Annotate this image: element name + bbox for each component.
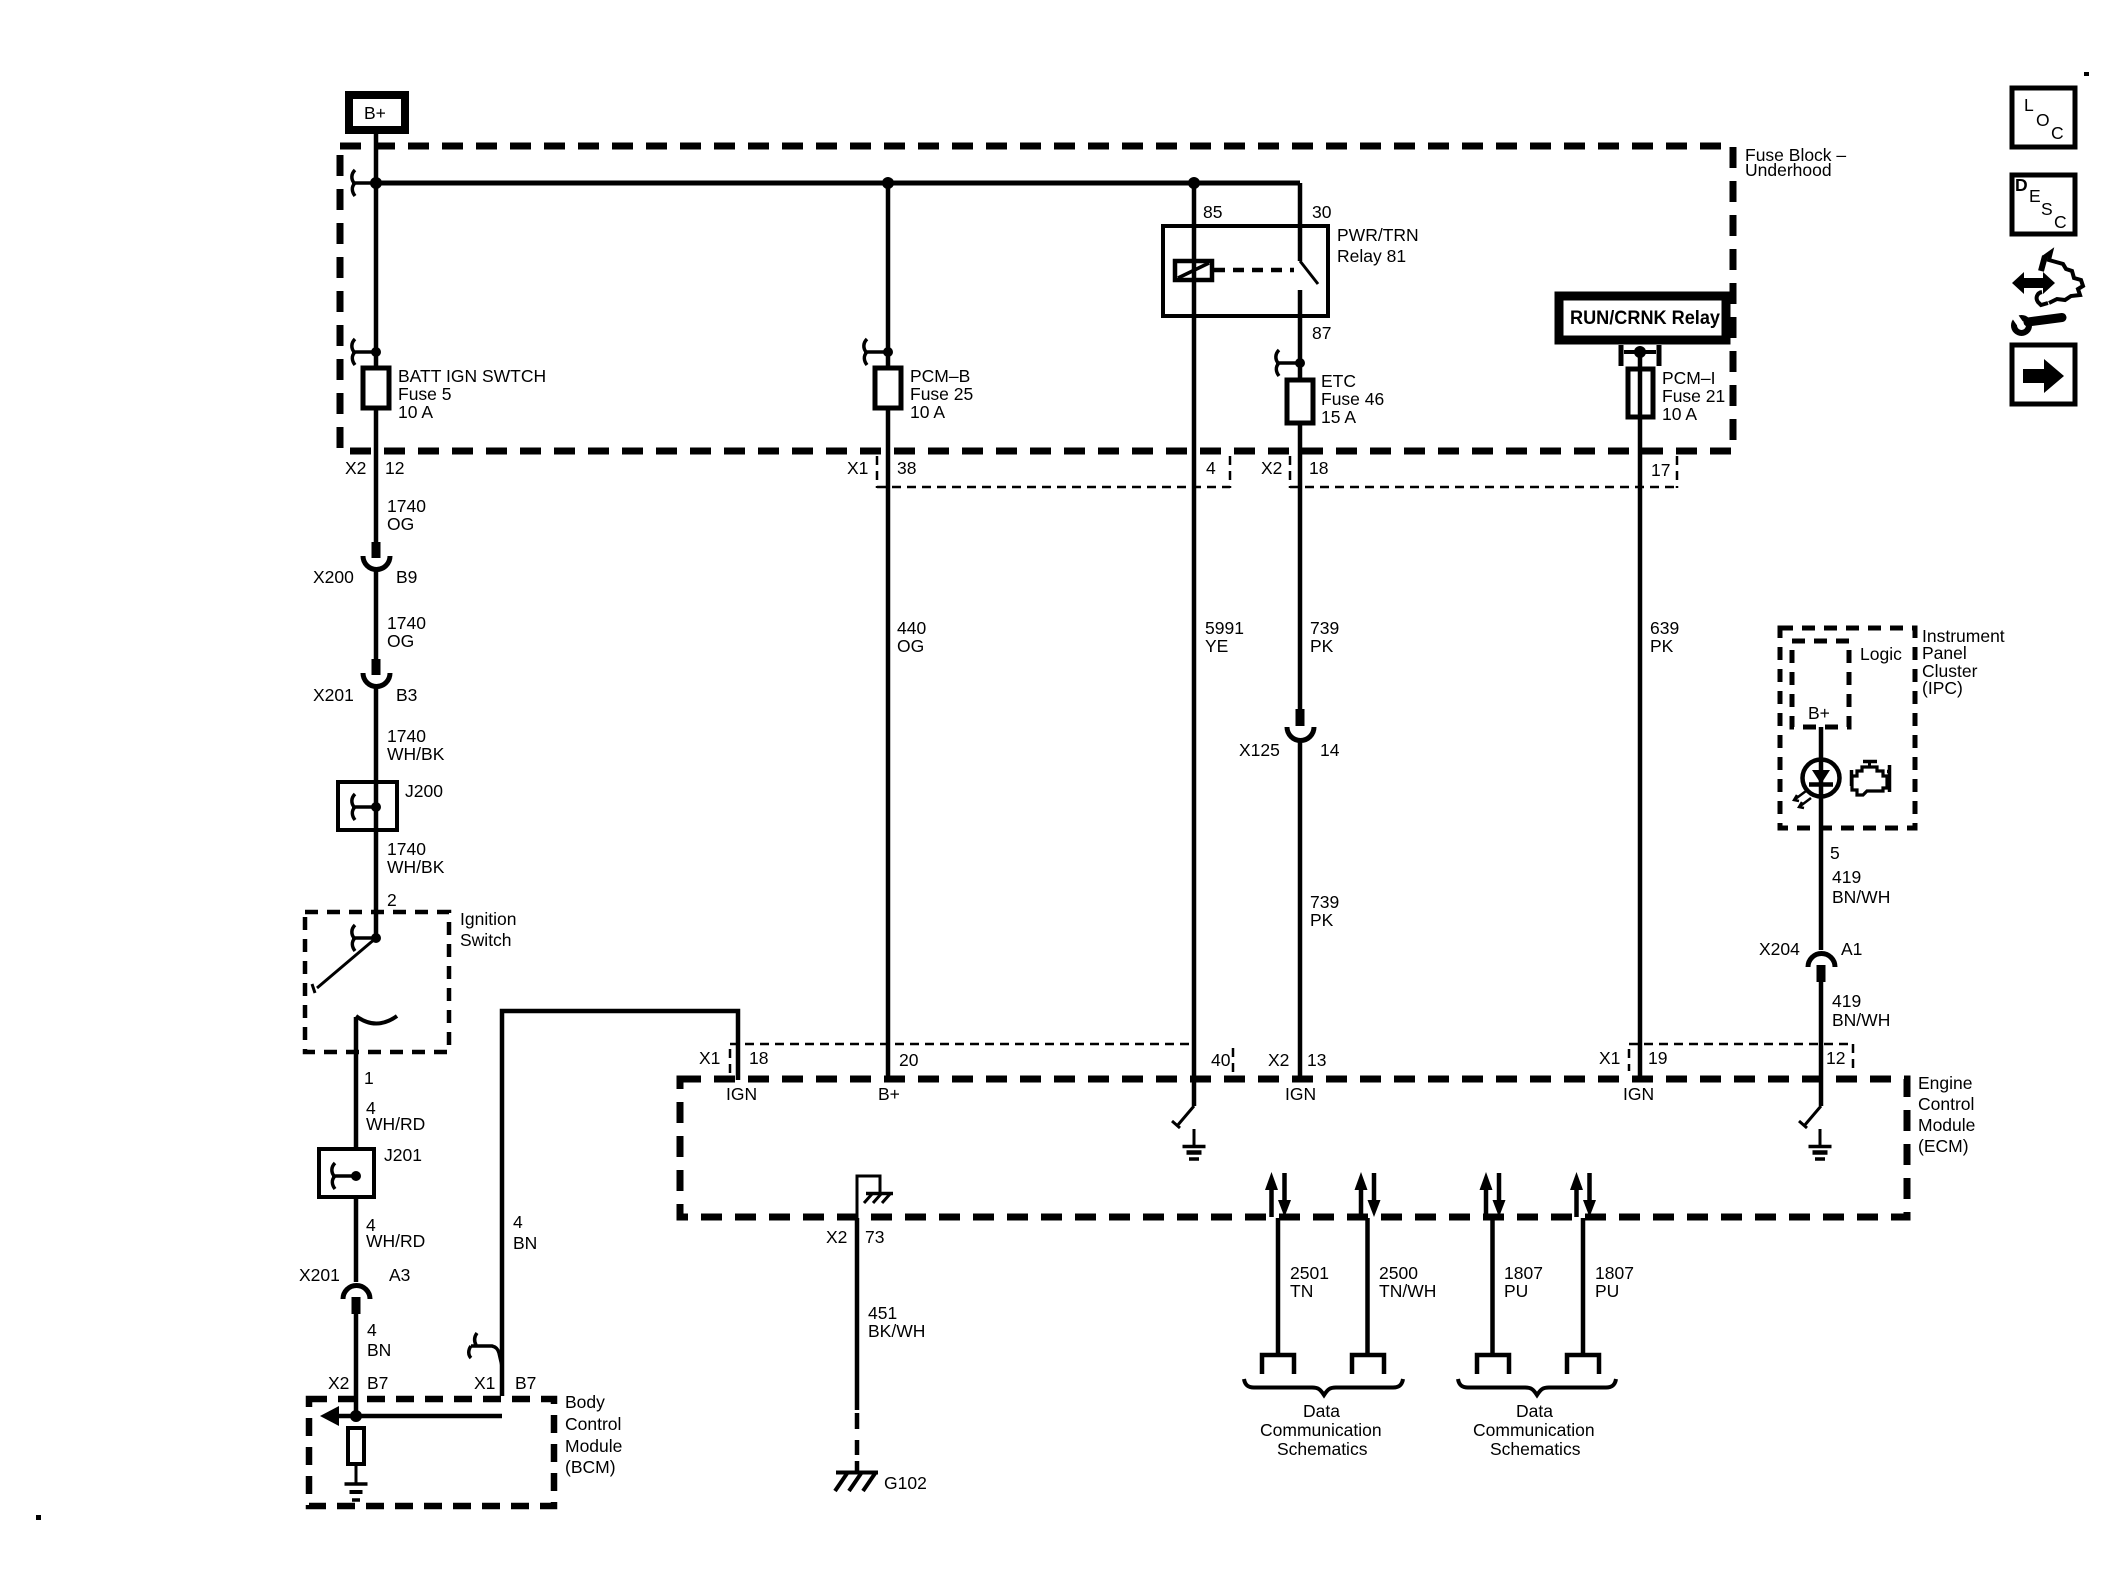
connector X201 B3 xyxy=(313,659,417,705)
fuse F5 BATT IGN SWTCH 10A xyxy=(363,366,546,422)
svg-text:20: 20 xyxy=(899,1050,919,1070)
svg-text:18: 18 xyxy=(749,1048,768,1068)
IPC box xyxy=(1780,626,2005,828)
svg-text:Communication: Communication xyxy=(1260,1420,1382,1440)
svg-text:18: 18 xyxy=(1309,458,1328,478)
svg-text:10 A: 10 A xyxy=(398,402,433,422)
wire fuse46 to X2-18 xyxy=(1298,423,1303,460)
pin X1 18 IGN xyxy=(699,1048,768,1104)
svg-text:Ignition: Ignition xyxy=(460,909,516,929)
svg-text:IGN: IGN xyxy=(1285,1084,1316,1104)
svg-text:Communication: Communication xyxy=(1473,1420,1595,1440)
relay coil xyxy=(1175,183,1212,316)
svg-text:PWR/TRN: PWR/TRN xyxy=(1337,225,1419,245)
icon DESC xyxy=(2012,175,2075,234)
bus wire B+ feed xyxy=(376,181,1300,186)
pin 40 xyxy=(1211,1048,1233,1073)
svg-text:419: 419 xyxy=(1832,867,1861,887)
wire 419 BN/WH to ECM pin12 xyxy=(1821,982,1890,1106)
label data comm 1 xyxy=(1260,1401,1382,1459)
wire PCM-B feed xyxy=(886,183,891,368)
svg-text:X201: X201 xyxy=(299,1265,340,1285)
splice J201 xyxy=(319,1145,422,1197)
svg-text:WH/RD: WH/RD xyxy=(366,1114,425,1134)
data arrows serial bus 1 xyxy=(1265,1172,1291,1217)
svg-text:1740: 1740 xyxy=(387,839,426,859)
svg-text:Fuse 46: Fuse 46 xyxy=(1321,389,1384,409)
wire bus to fuse5 xyxy=(374,183,379,368)
pin X2 13 IGN xyxy=(1268,1050,1326,1104)
power symbol B+ xyxy=(349,95,405,130)
clip fuse25 xyxy=(864,339,893,365)
svg-text:Control: Control xyxy=(1918,1094,1974,1114)
pin X1 19 IGN xyxy=(1599,1048,1667,1104)
svg-text:X201: X201 xyxy=(313,685,354,705)
svg-text:WH/BK: WH/BK xyxy=(387,857,445,877)
wire 4 BN to BCM xyxy=(356,1314,391,1416)
svg-text:73: 73 xyxy=(865,1227,884,1247)
connector X201 A3 xyxy=(299,1265,410,1314)
connector dashed line ECM X1 xyxy=(730,1043,1194,1046)
svg-text:1740: 1740 xyxy=(387,613,426,633)
clip BCM X1-B7 xyxy=(469,1333,502,1366)
svg-text:12: 12 xyxy=(385,458,404,478)
svg-text:1807: 1807 xyxy=(1595,1263,1634,1283)
relay actuator dashed link xyxy=(1214,268,1294,273)
svg-text:X125: X125 xyxy=(1239,740,1280,760)
svg-text:X1: X1 xyxy=(847,458,868,478)
svg-text:OG: OG xyxy=(387,631,414,651)
svg-text:Data: Data xyxy=(1303,1401,1340,1421)
ECM switch pin12 xyxy=(1799,1106,1821,1128)
svg-text:X1: X1 xyxy=(1599,1048,1620,1068)
wire 4 WH/RD lower xyxy=(356,1197,425,1282)
svg-text:C: C xyxy=(2051,123,2064,143)
svg-text:E: E xyxy=(2029,186,2041,206)
terminator serial 3 xyxy=(1477,1355,1509,1374)
fuse block - underhood box xyxy=(340,145,1846,451)
svg-text:Logic: Logic xyxy=(1860,644,1902,664)
wire 639 PK PCM-I to ECM pin19 xyxy=(1640,460,1679,1080)
ignition switch blade xyxy=(312,938,376,993)
pin X1 38 xyxy=(847,456,916,488)
clip ignition switch xyxy=(352,925,381,951)
svg-text:Data: Data xyxy=(1516,1401,1553,1421)
fuse F46 ETC 15A xyxy=(1287,371,1384,427)
svg-text:739: 739 xyxy=(1310,618,1339,638)
svg-text:X2: X2 xyxy=(328,1373,349,1393)
svg-text:J200: J200 xyxy=(405,781,443,801)
svg-text:451: 451 xyxy=(868,1303,897,1323)
svg-text:PU: PU xyxy=(1504,1281,1528,1301)
svg-text:1: 1 xyxy=(364,1068,374,1088)
svg-text:2501: 2501 xyxy=(1290,1263,1329,1283)
svg-text:BK/WH: BK/WH xyxy=(868,1321,925,1341)
svg-text:(ECM): (ECM) xyxy=(1918,1136,1969,1156)
chassis ground ECM X2-73 xyxy=(857,1176,893,1218)
svg-text:1740: 1740 xyxy=(387,496,426,516)
svg-text:15 A: 15 A xyxy=(1321,407,1356,427)
svg-text:IGN: IGN xyxy=(1623,1084,1654,1104)
svg-text:L: L xyxy=(2024,95,2034,115)
data arrows serial bus 4 xyxy=(1570,1172,1596,1217)
pin X1 B7 xyxy=(474,1373,536,1393)
data arrows serial bus 2 xyxy=(1355,1172,1381,1217)
svg-text:10 A: 10 A xyxy=(1662,404,1697,424)
svg-text:(IPC): (IPC) xyxy=(1922,678,1963,698)
svg-text:RUN/CRNK Relay: RUN/CRNK Relay xyxy=(1570,308,1720,329)
svg-text:X1: X1 xyxy=(699,1048,720,1068)
wire fuse5 to connector X2-12 xyxy=(374,408,379,460)
svg-text:IGN: IGN xyxy=(726,1084,757,1104)
connector dashed line X1 xyxy=(877,456,1230,488)
svg-text:Panel: Panel xyxy=(1922,643,1967,663)
wire dashed to G102 xyxy=(855,1413,860,1471)
svg-text:10 A: 10 A xyxy=(910,402,945,422)
svg-text:BN/WH: BN/WH xyxy=(1832,1010,1890,1030)
connector X125 14 xyxy=(1239,709,1340,760)
svg-text:Schematics: Schematics xyxy=(1277,1439,1368,1459)
wire 451 BK/WH xyxy=(857,1218,925,1410)
relay PWR/TRN Relay 81 xyxy=(1163,225,1419,316)
ground BCM xyxy=(345,1464,368,1500)
LED indicator lamp xyxy=(1794,759,1840,808)
BCM box xyxy=(309,1392,622,1506)
svg-text:BN/WH: BN/WH xyxy=(1832,887,1890,907)
svg-text:Fuse 21: Fuse 21 xyxy=(1662,386,1725,406)
svg-text:Switch: Switch xyxy=(460,930,512,950)
icon connector-repair xyxy=(2012,252,2083,333)
svg-text:X1: X1 xyxy=(474,1373,495,1393)
svg-text:419: 419 xyxy=(1832,991,1861,1011)
svg-text:(BCM): (BCM) xyxy=(565,1457,616,1477)
data arrows serial bus 3 xyxy=(1480,1172,1506,1217)
wire pin5 419 BN/WH xyxy=(1821,797,1890,950)
svg-text:5991: 5991 xyxy=(1205,618,1244,638)
wire 30 from bus xyxy=(1298,183,1303,261)
svg-text:X2: X2 xyxy=(345,458,366,478)
BCM internal wire with arrow xyxy=(320,1406,502,1426)
wire 739 PK lower xyxy=(1300,742,1339,1080)
svg-text:4: 4 xyxy=(513,1212,523,1232)
brace data comm 1 xyxy=(1244,1379,1403,1395)
svg-text:B+: B+ xyxy=(364,103,386,123)
fuse F25 PCM-B 10A xyxy=(875,366,973,422)
stray mark top right xyxy=(2084,72,2089,76)
brace data comm 2 xyxy=(1458,1379,1616,1395)
svg-text:13: 13 xyxy=(1307,1050,1326,1070)
wire fuse25 to X1-38 xyxy=(886,408,891,460)
svg-text:Relay 81: Relay 81 xyxy=(1337,246,1406,266)
svg-text:17: 17 xyxy=(1651,460,1670,480)
wire relay87 to fuse46 xyxy=(1298,316,1303,380)
wire 440 OG PCM-B to ECM pin20 xyxy=(888,460,926,1080)
svg-text:PK: PK xyxy=(1310,910,1334,930)
relay RUN/CRNK label box xyxy=(1559,296,1726,340)
svg-text:739: 739 xyxy=(1310,892,1339,912)
svg-text:A1: A1 xyxy=(1841,939,1862,959)
svg-text:2: 2 xyxy=(387,890,397,910)
terminator serial 4 xyxy=(1567,1355,1599,1374)
svg-text:1740: 1740 xyxy=(387,726,426,746)
svg-text:440: 440 xyxy=(897,618,926,638)
splice J200 xyxy=(338,781,443,830)
svg-text:639: 639 xyxy=(1650,618,1679,638)
svg-text:BN: BN xyxy=(513,1233,537,1253)
wire relay85 out pin 4 xyxy=(1192,316,1197,460)
svg-text:B+: B+ xyxy=(1808,703,1830,723)
ground ECM pin40 xyxy=(1183,1129,1206,1159)
svg-text:S: S xyxy=(2041,199,2053,219)
svg-text:X204: X204 xyxy=(1759,939,1800,959)
wire logic B+ to LED xyxy=(1819,727,1824,759)
svg-text:C: C xyxy=(2054,212,2067,232)
wire 2501 TN xyxy=(1278,1218,1329,1353)
svg-text:85: 85 xyxy=(1203,202,1222,222)
connector X200 B9 xyxy=(313,542,417,587)
svg-text:X200: X200 xyxy=(313,567,354,587)
pin X2 73 xyxy=(826,1227,884,1247)
connector dashed line X2 xyxy=(1290,456,1677,488)
svg-text:14: 14 xyxy=(1320,740,1340,760)
wire 739 PK upper xyxy=(1300,460,1339,709)
svg-text:Module: Module xyxy=(1918,1115,1975,1135)
svg-text:4: 4 xyxy=(1206,458,1216,478)
svg-text:30: 30 xyxy=(1312,202,1332,222)
ignition switch box xyxy=(305,909,516,1052)
svg-text:BATT IGN SWTCH: BATT IGN SWTCH xyxy=(398,366,546,386)
ground ECM pin12 xyxy=(1809,1129,1832,1159)
connector RUN/CRNK relay socket xyxy=(1621,345,1659,366)
svg-text:WH/RD: WH/RD xyxy=(366,1231,425,1251)
terminator serial 1 xyxy=(1262,1355,1294,1374)
svg-text:2500: 2500 xyxy=(1379,1263,1418,1283)
node bus/relay85 wire xyxy=(1188,177,1200,189)
svg-text:PK: PK xyxy=(1650,636,1674,656)
svg-text:PCM–I: PCM–I xyxy=(1662,368,1715,388)
svg-text:PCM–B: PCM–B xyxy=(910,366,970,386)
svg-text:J201: J201 xyxy=(384,1145,422,1165)
svg-text:TN/WH: TN/WH xyxy=(1379,1281,1436,1301)
svg-text:4: 4 xyxy=(367,1320,377,1340)
svg-text:BN: BN xyxy=(367,1340,391,1360)
svg-text:A3: A3 xyxy=(389,1265,410,1285)
ECM switch pin40 xyxy=(1172,1106,1194,1128)
svg-text:12: 12 xyxy=(1826,1048,1845,1068)
svg-text:38: 38 xyxy=(897,458,916,478)
engine icon xyxy=(1851,762,1890,796)
svg-text:PK: PK xyxy=(1310,636,1334,656)
ignition switch contact arc xyxy=(356,1016,397,1024)
ground G102 xyxy=(835,1472,927,1493)
svg-text:Body: Body xyxy=(565,1392,605,1412)
svg-text:O: O xyxy=(2036,110,2050,130)
pin 20 B+ xyxy=(878,1050,919,1104)
svg-text:Control: Control xyxy=(565,1414,621,1434)
svg-text:Engine: Engine xyxy=(1918,1073,1973,1093)
wire fuse21 to pin 17 xyxy=(1638,417,1643,460)
wire 1740 WH/BK upper xyxy=(376,688,445,782)
svg-text:D: D xyxy=(2015,175,2028,195)
svg-text:G102: G102 xyxy=(884,1473,927,1493)
IPC logic box xyxy=(1792,641,1902,727)
pin X2 18 xyxy=(1261,456,1328,488)
svg-text:Fuse 25: Fuse 25 xyxy=(910,384,973,404)
fuse F21 PCM-I 10A xyxy=(1628,352,1725,424)
svg-text:B3: B3 xyxy=(396,685,417,705)
svg-text:Underhood: Underhood xyxy=(1745,160,1832,180)
svg-text:B7: B7 xyxy=(515,1373,536,1393)
svg-text:ETC: ETC xyxy=(1321,371,1356,391)
wire 1740 OG upper xyxy=(376,460,426,542)
stray mark bottom left xyxy=(36,1515,41,1520)
svg-text:X2: X2 xyxy=(1268,1050,1289,1070)
terminator serial 2 xyxy=(1352,1355,1384,1374)
svg-text:5: 5 xyxy=(1830,843,1840,863)
node bus/PCM-B wire xyxy=(882,177,894,189)
wire 1807 PU right xyxy=(1583,1218,1634,1353)
icon forward arrow xyxy=(2012,345,2075,404)
svg-text:Fuse 5: Fuse 5 xyxy=(398,384,452,404)
svg-text:WH/BK: WH/BK xyxy=(387,744,445,764)
svg-text:87: 87 xyxy=(1312,323,1331,343)
resistor BCM xyxy=(348,1428,364,1464)
wire pin1 4 WH/RD xyxy=(356,1017,425,1149)
svg-text:X2: X2 xyxy=(826,1227,847,1247)
svg-text:Module: Module xyxy=(565,1436,622,1456)
pin X2 12 xyxy=(345,458,404,478)
wire 2500 TN/WH xyxy=(1368,1218,1437,1353)
svg-text:1807: 1807 xyxy=(1504,1263,1543,1283)
wire 1740 OG lower xyxy=(376,571,426,659)
svg-text:OG: OG xyxy=(897,636,924,656)
svg-text:B+: B+ xyxy=(878,1084,900,1104)
svg-text:PU: PU xyxy=(1595,1281,1619,1301)
node bus/fuse5 xyxy=(352,170,382,196)
svg-text:TN: TN xyxy=(1290,1281,1313,1301)
svg-text:Schematics: Schematics xyxy=(1490,1439,1581,1459)
svg-text:19: 19 xyxy=(1648,1048,1667,1068)
relay 87 stub xyxy=(1298,290,1303,316)
pin X2 B7 xyxy=(328,1373,388,1393)
svg-text:OG: OG xyxy=(387,514,414,534)
icon LOC xyxy=(2012,88,2075,147)
connector X204 A1 xyxy=(1759,939,1862,982)
wire IGN net ECM18 to BCM xyxy=(502,1011,738,1396)
clip fuse46 xyxy=(1276,350,1305,376)
svg-text:X2: X2 xyxy=(1261,458,1282,478)
svg-text:B9: B9 xyxy=(396,567,417,587)
wire 5991 YE relay85 to ECM pin40 xyxy=(1194,460,1244,1106)
clip fuse5 xyxy=(352,339,381,365)
wire 1740 WH/BK lower xyxy=(376,830,445,938)
ECM box xyxy=(680,1073,1975,1217)
relay switch blade xyxy=(1300,261,1318,284)
label data comm 2 xyxy=(1473,1401,1595,1459)
wire from B+ to bus xyxy=(374,130,379,183)
svg-text:40: 40 xyxy=(1211,1050,1231,1070)
svg-text:YE: YE xyxy=(1205,636,1228,656)
svg-text:B7: B7 xyxy=(367,1373,388,1393)
wire 1807 PU left xyxy=(1493,1218,1543,1353)
connector dashed line ECM X1 right xyxy=(1629,1044,1853,1072)
